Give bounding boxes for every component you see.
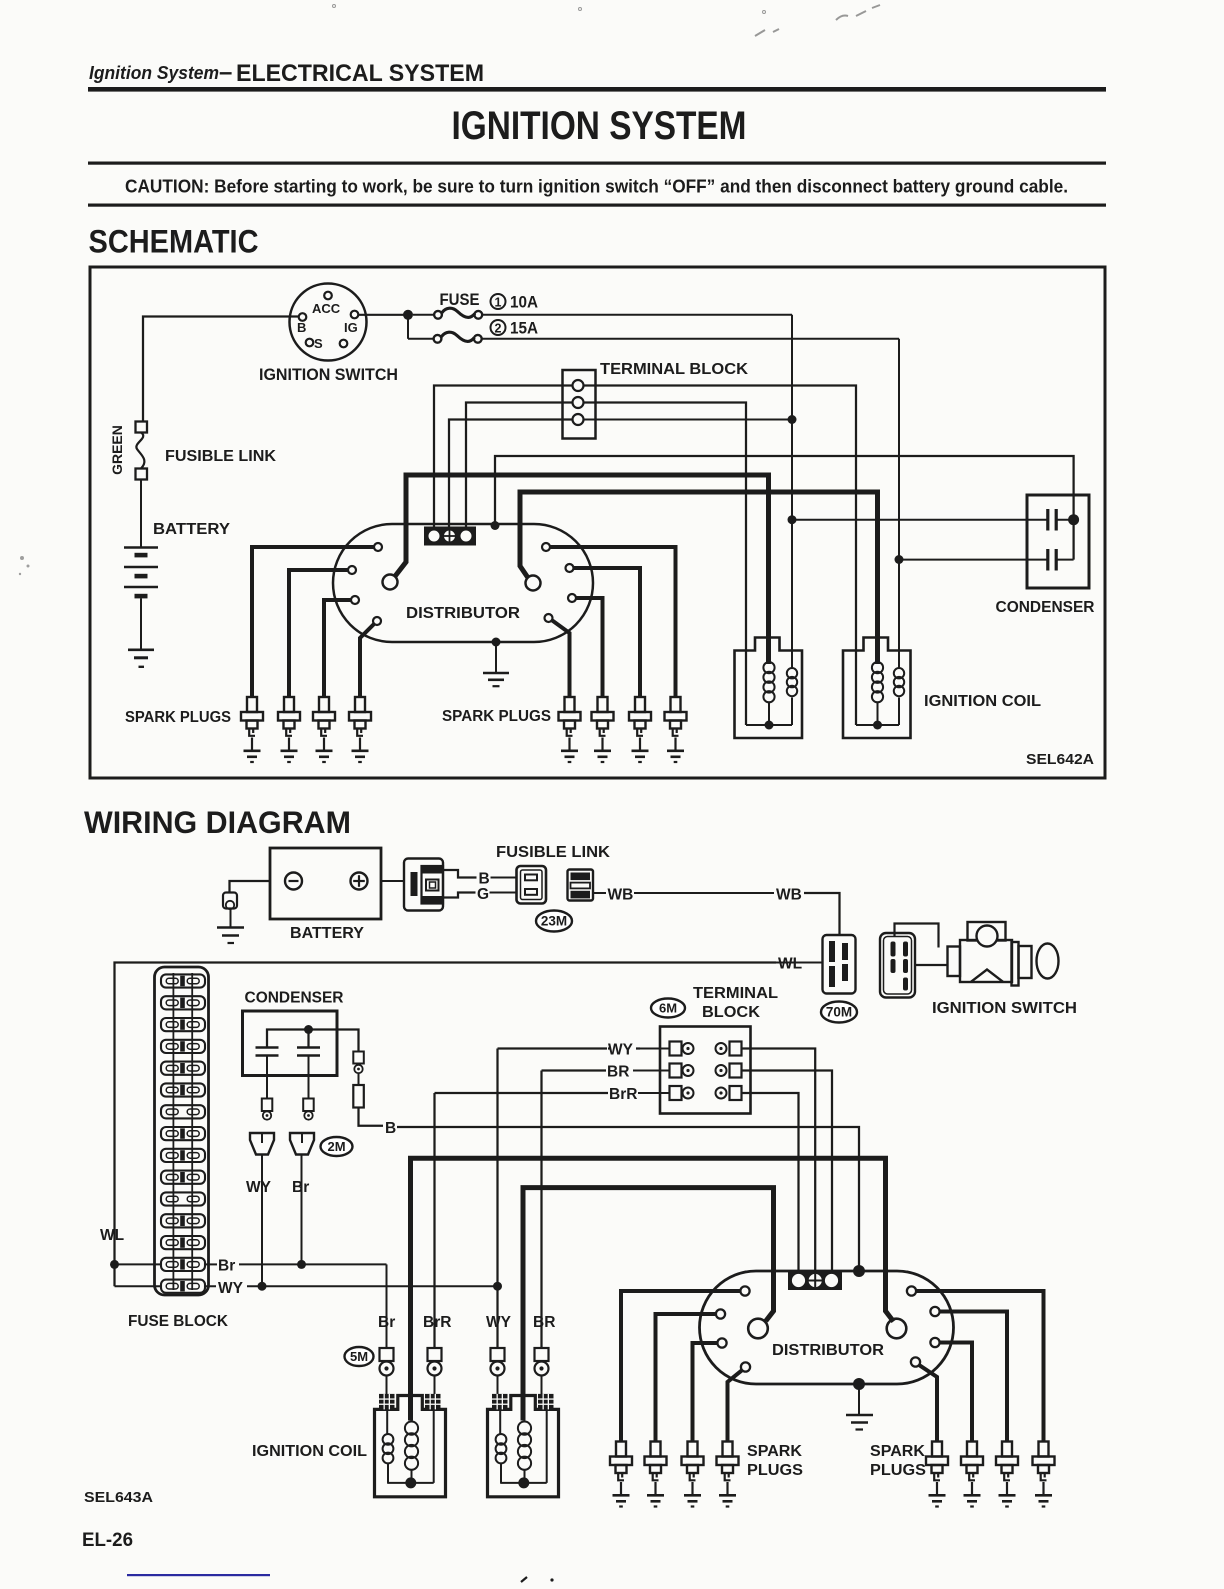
- ignition switch connector (wiring): [880, 933, 915, 998]
- distributor pin 1: [374, 543, 382, 551]
- distributor pin 6: [566, 564, 574, 572]
- node Br junction: [297, 1260, 306, 1269]
- HT bus coil1 tower to rotor right (wiring): [411, 1158, 894, 1420]
- wire pin2 to spark plug 2 (wiring): [656, 1314, 717, 1442]
- wire pin2 to spark plug 2: [289, 570, 348, 697]
- battery (wiring): [270, 848, 381, 919]
- fuse F1 10A: [413, 314, 434, 316]
- wire connector to switch body top: [895, 924, 939, 948]
- junction node at fuses: [403, 310, 413, 320]
- svg-text:IGNITION SWITCH: IGNITION SWITCH: [259, 366, 398, 384]
- svg-text:WB: WB: [776, 887, 802, 904]
- connector code 5M: [345, 1347, 374, 1366]
- wire TB1 row3 right to node A: [584, 419, 793, 421]
- scan speck 2: [550, 1578, 553, 1581]
- spark plug 2 (wiring): [645, 1442, 667, 1507]
- label circled-1 10A: [491, 294, 506, 309]
- HT bus to rotor left: [395, 475, 769, 664]
- distributor pin 3: [351, 596, 359, 604]
- node distributor top (wiring): [853, 1265, 865, 1277]
- svg-text:GREEN: GREEN: [109, 425, 125, 475]
- svg-text:BR: BR: [607, 1064, 629, 1081]
- wire BR vertical to 5M connector: [540, 1071, 542, 1349]
- ignition coil 1 (wiring): [375, 1396, 446, 1497]
- svg-text:FUSE BLOCK: FUSE BLOCK: [128, 1313, 228, 1330]
- svg-text:BATTERY: BATTERY: [153, 521, 230, 538]
- wire WL from 70M to left edge: [776, 962, 823, 964]
- wire connector to switch body mid: [915, 964, 948, 966]
- svg-text:70M: 70M: [826, 1005, 852, 1020]
- spark plug 6 (schematic): [592, 697, 614, 762]
- SW1 terminal ACC-top: [324, 292, 332, 300]
- node E on distributor top: [491, 521, 500, 530]
- svg-text:G: G: [477, 886, 489, 903]
- wire WL into fuse block row14: [115, 1285, 162, 1287]
- wire BR left of TB2: [633, 1070, 670, 1072]
- ignition coil 2 (wiring): [488, 1396, 559, 1497]
- wire Br spade down to Br junction: [301, 1155, 303, 1265]
- capacitor C2 plates: [1046, 549, 1049, 571]
- spark plug 7 (schematic): [629, 697, 651, 762]
- svg-text:CONDENSER: CONDENSER: [245, 990, 344, 1007]
- svg-text:5M: 5M: [350, 1349, 368, 1364]
- spade connector WY (2M): [250, 1133, 274, 1155]
- svg-text:15A: 15A: [510, 320, 538, 338]
- wire fuse F2 output to x899: [482, 338, 899, 340]
- battery minus terminal: [285, 873, 302, 890]
- wire TB2 row1 right to distributor cap: [742, 1049, 816, 1272]
- inline connector 2 on case lead: [358, 1073, 360, 1085]
- wire G out of 23M: [443, 893, 476, 898]
- svg-text:B: B: [385, 1120, 396, 1137]
- svg-text:PLUGS: PLUGS: [747, 1462, 803, 1479]
- distributor pin 8: [545, 614, 553, 622]
- HT bus coil2 tower to rotor left (wiring): [523, 1188, 774, 1421]
- fusible link FL1 (schematic): [136, 422, 148, 433]
- wire TB1 row2 right to coil1 side: [584, 403, 747, 652]
- svg-text:WL: WL: [778, 956, 802, 973]
- wire WB segment 3 down to 70M: [804, 893, 840, 935]
- svg-text:BR: BR: [533, 1314, 555, 1331]
- spark plug 3 (wiring): [682, 1442, 704, 1507]
- distributor body (wiring): [700, 1271, 954, 1384]
- capacitor C4 (wiring): [297, 1046, 320, 1049]
- wire pin3 to spark plug 3 (wiring): [693, 1343, 719, 1442]
- svg-text:6M: 6M: [659, 1001, 677, 1016]
- wire pin8 to spark plug 8 (wiring): [919, 1365, 937, 1442]
- wire pin6 to spark plug 6 (wiring): [939, 1312, 1007, 1442]
- svg-text:WY: WY: [608, 1042, 634, 1059]
- spade connector Br (2M): [290, 1133, 314, 1155]
- svg-text:S: S: [314, 336, 323, 351]
- spark plug 3 (schematic): [313, 697, 335, 762]
- wire G to fusible link: [490, 892, 518, 894]
- wire WY left of TB2: [636, 1048, 670, 1050]
- header rule: [88, 87, 1106, 92]
- footer blue rule: [127, 1574, 270, 1576]
- svg-text:1: 1: [495, 295, 502, 309]
- SW1 terminal lower-right: [340, 340, 348, 348]
- connector code 70M: [821, 1002, 857, 1023]
- ground lug terminal: [223, 893, 237, 909]
- scan speck 1: [521, 1577, 527, 1582]
- wire WB segment 2: [634, 892, 774, 894]
- inline connector on C4 lead: [303, 1099, 314, 1112]
- wire case lead down to B run: [359, 1108, 384, 1126]
- condenser box (wiring): [243, 1011, 338, 1076]
- distributor pin 2: [348, 566, 356, 574]
- svg-text:DISTRIBUTOR: DISTRIBUTOR: [406, 605, 520, 622]
- spark plug 2 (schematic): [278, 697, 300, 762]
- spark plug 5 (schematic): [559, 697, 581, 762]
- inline connector on C3 lead: [262, 1099, 273, 1112]
- svg-text:WY: WY: [246, 1179, 272, 1196]
- bullet connector WY (5M): [491, 1348, 505, 1376]
- bullet connector BrR (5M): [428, 1348, 442, 1376]
- SW1 terminal IG: [351, 311, 359, 319]
- spark plug 7 (wiring): [996, 1442, 1018, 1507]
- svg-text:Br: Br: [218, 1258, 235, 1275]
- wire B run to distributor node: [397, 1127, 859, 1267]
- wire WL long run left and down: [115, 963, 777, 1287]
- wire node C to condenser bottom capacitor: [899, 559, 1048, 561]
- wire WL into fuse block row13: [115, 1263, 162, 1265]
- svg-text:–: –: [219, 59, 232, 86]
- wire WB segment 1: [593, 892, 606, 894]
- wire TB1 row2 left to cap: [466, 403, 573, 529]
- wire TB2 row2 right to distributor cap: [742, 1071, 833, 1272]
- node condenser junction: [304, 1025, 313, 1034]
- svg-text:Br: Br: [292, 1179, 309, 1196]
- wire battery minus to ground lug: [230, 881, 271, 892]
- svg-text:WY: WY: [486, 1314, 512, 1331]
- node D on C1: [1068, 514, 1079, 525]
- wire BrR connector to coil1 terminal: [434, 1376, 436, 1397]
- svg-text:Ignition System: Ignition System: [89, 63, 219, 83]
- distributor cap connector (wiring): [788, 1271, 842, 1290]
- svg-text:SEL642A: SEL642A: [1026, 751, 1094, 768]
- SW1 terminal B: [299, 313, 307, 321]
- wire pin1 to spark plug 1 (wiring): [621, 1291, 741, 1442]
- svg-text:WB: WB: [608, 887, 634, 904]
- scan marks top right: [333, 5, 881, 37]
- svg-text:SPARK PLUGS: SPARK PLUGS: [442, 708, 551, 725]
- wire pin1 to spark plug 1: [252, 547, 374, 697]
- svg-text:2: 2: [495, 321, 502, 335]
- bullet connector BR (5M): [535, 1348, 549, 1376]
- svg-text:EL-26: EL-26: [82, 1530, 133, 1551]
- svg-text:IGNITION COIL: IGNITION COIL: [924, 693, 1041, 710]
- svg-text:10A: 10A: [510, 294, 538, 312]
- wire pin5 to spark plug 5 (wiring): [916, 1291, 1044, 1442]
- wire fuse F1 output to x792: [482, 314, 792, 316]
- svg-text:FUSIBLE LINK: FUSIBLE LINK: [165, 448, 276, 465]
- wire pin4 to spark plug 4 (wiring): [728, 1370, 743, 1442]
- svg-text:SPARK PLUGS: SPARK PLUGS: [125, 709, 231, 726]
- distributor pins (wiring) 1-8: [740, 1286, 749, 1295]
- svg-text:IG: IG: [344, 320, 358, 335]
- ground below battery lug: [217, 926, 244, 929]
- wire battery plus to connector 23M: [381, 880, 404, 882]
- svg-text:B: B: [479, 871, 490, 888]
- wire Br to corner: [239, 1263, 387, 1265]
- ground below distributor: [495, 642, 497, 672]
- wire TB1 row1 left to cap: [434, 386, 573, 529]
- rotor contact right: [526, 576, 541, 591]
- wire Br down to 5M connector: [386, 1264, 388, 1348]
- svg-text:FUSE: FUSE: [440, 291, 480, 309]
- node WL junction: [110, 1260, 119, 1269]
- distributor pin 5: [542, 543, 550, 551]
- wire pin8 to spark plug 8: [552, 621, 569, 698]
- spark plug 4 (schematic): [349, 697, 371, 762]
- svg-text:Br: Br: [378, 1314, 395, 1331]
- distributor pin 4: [373, 617, 381, 625]
- node B junction: [788, 515, 797, 524]
- connector 23M assembly: [404, 859, 443, 911]
- inline connector on condenser case lead: [353, 1052, 364, 1064]
- svg-text:CONDENSER: CONDENSER: [996, 599, 1095, 616]
- svg-text:WY: WY: [218, 1280, 244, 1297]
- capacitor C3 (wiring): [256, 1046, 279, 1049]
- wire WY bus from fuse block: [205, 1285, 498, 1287]
- distributor body (schematic): [333, 524, 593, 642]
- wire Br connector to coil1 terminal: [386, 1376, 388, 1397]
- fuse F2 15A: [408, 338, 434, 340]
- svg-text:B: B: [297, 320, 306, 335]
- svg-text:ELECTRICAL SYSTEM: ELECTRICAL SYSTEM: [236, 60, 484, 87]
- SW1 terminal S: [306, 339, 314, 347]
- wire WY spade down to WY bus: [261, 1155, 263, 1287]
- ignition switch body (wiring): [948, 947, 961, 977]
- svg-text:BrR: BrR: [609, 1086, 637, 1103]
- rotor contact right (wiring): [887, 1319, 907, 1339]
- node WY junction 2: [493, 1282, 502, 1291]
- caution rule top: [88, 162, 1106, 165]
- svg-text:2M: 2M: [327, 1139, 345, 1154]
- distributor ground node: [492, 638, 501, 647]
- battery BAT1 (schematic): [124, 546, 158, 549]
- fusible link connector 2 (wiring): [568, 870, 594, 901]
- distributor cap connector block: [424, 527, 476, 546]
- rotor contact left: [383, 575, 398, 590]
- wire TB1 row1 right to coil2 side: [584, 386, 857, 652]
- wire pin7 to spark plug 7 (wiring): [939, 1343, 972, 1442]
- wire node B to condenser top capacitor: [792, 519, 1048, 521]
- capacitor C1 plates: [1046, 509, 1049, 531]
- schematic border box: [90, 267, 1105, 778]
- wire FL1 to battery: [140, 480, 142, 547]
- label circled-2 15A: [491, 320, 506, 335]
- rotor contact left (wiring): [748, 1319, 768, 1339]
- node WY junction 1: [258, 1282, 267, 1291]
- wire pin7 to spark plug 7: [576, 598, 603, 697]
- ignition switch SW1 body: [290, 284, 367, 361]
- condenser interior bus: [267, 1030, 359, 1052]
- svg-text:TERMINAL: TERMINAL: [693, 985, 778, 1002]
- scan specks left margin: [19, 556, 30, 575]
- wire TB1 row3 left to cap: [449, 420, 573, 529]
- svg-text:DISTRIBUTOR: DISTRIBUTOR: [772, 1342, 884, 1359]
- wire node D up and over to distributor node E: [495, 456, 1074, 560]
- wire fuse F1 feed down to coil1 secondary: [791, 315, 793, 669]
- svg-text:TERMINAL BLOCK: TERMINAL BLOCK: [600, 361, 748, 378]
- wire fuse F2 feed down to coil2 secondary: [898, 339, 900, 669]
- wire pin5 to spark plug 5: [550, 547, 676, 697]
- wire BR connector to coil2 terminal: [541, 1376, 543, 1397]
- wire pin6 to spark plug 6: [574, 568, 641, 697]
- wire pin3 to spark plug 3: [324, 600, 351, 697]
- connector code 23M: [536, 911, 572, 932]
- wire B to fusible link: [491, 877, 518, 879]
- distributor ground (wiring): [853, 1378, 865, 1390]
- svg-text:WIRING DIAGRAM: WIRING DIAGRAM: [84, 804, 351, 840]
- wire SW1-IG to fuse junction: [358, 314, 404, 316]
- condenser box: [1027, 495, 1089, 588]
- wire pin4 to spark plug 4: [360, 624, 374, 697]
- caution rule bottom: [88, 204, 1106, 207]
- svg-text:ACC: ACC: [312, 301, 341, 316]
- wire battery to ground: [140, 598, 142, 649]
- wire Br from fuse block: [205, 1263, 217, 1265]
- terminal block TB2 (wiring): [660, 1027, 751, 1114]
- svg-text:FUSIBLE LINK: FUSIBLE LINK: [496, 844, 610, 861]
- svg-text:BrR: BrR: [423, 1314, 451, 1331]
- fusible link connector 1 (wiring): [517, 866, 547, 904]
- wire B out of 23M: [443, 870, 477, 878]
- spark plug 8 (wiring): [1033, 1442, 1055, 1507]
- spark plug 4 (wiring): [717, 1442, 739, 1507]
- node C junction: [895, 555, 904, 564]
- svg-text:BLOCK: BLOCK: [702, 1004, 760, 1021]
- svg-text:PLUGS: PLUGS: [870, 1462, 926, 1479]
- svg-text:SPARK: SPARK: [870, 1443, 925, 1460]
- ground below battery: [128, 648, 154, 651]
- svg-text:CAUTION: Before starting to w: CAUTION: Before starting to work, be sur…: [125, 177, 1068, 197]
- label WY 1: [216, 1277, 247, 1294]
- wire WY from TB2 down to 5M: [608, 1047, 610, 1049]
- spark plug 1 (wiring): [610, 1442, 632, 1507]
- wire junction down to fuse F2: [407, 315, 409, 339]
- wire BrR left of TB2: [638, 1092, 670, 1094]
- svg-text:SCHEMATIC: SCHEMATIC: [89, 224, 259, 260]
- connector code 2M: [321, 1137, 353, 1156]
- wire WY vertical to 5M connector: [496, 1049, 498, 1349]
- spark plug 5 (wiring): [926, 1442, 948, 1507]
- svg-text:BATTERY: BATTERY: [290, 925, 364, 942]
- bullet connector Br (5M): [380, 1348, 394, 1376]
- svg-text:IGNITION SYSTEM: IGNITION SYSTEM: [452, 104, 747, 148]
- distributor pin 7: [568, 594, 576, 602]
- svg-text:23M: 23M: [541, 914, 567, 929]
- svg-text:IGNITION SWITCH: IGNITION SWITCH: [932, 1000, 1077, 1017]
- svg-text:WL: WL: [100, 1227, 124, 1244]
- spark plug 8 (schematic): [665, 697, 687, 762]
- fuse block (wiring): [155, 967, 209, 1295]
- HT bus to rotor right: [520, 492, 878, 664]
- connector 70M: [823, 935, 856, 994]
- wire SW1-B to battery drop: [143, 317, 299, 422]
- svg-text:IGNITION COIL: IGNITION COIL: [252, 1443, 367, 1460]
- terminal block TB1: [563, 370, 596, 439]
- wire WY connector to coil2 terminal: [497, 1376, 499, 1397]
- ignition coil 1 (schematic): [735, 638, 803, 739]
- ignition coil 2 (schematic): [843, 638, 911, 739]
- wire BrR vertical to 5M connector: [433, 1093, 435, 1348]
- connector code 6M: [651, 999, 685, 1018]
- svg-text:SEL643A: SEL643A: [84, 1489, 153, 1506]
- spark plug 6 (wiring): [961, 1442, 983, 1507]
- svg-text:SPARK: SPARK: [747, 1443, 802, 1460]
- wire TB2 row3 right to distributor cap: [742, 1093, 799, 1271]
- spark plug 1 (schematic): [241, 697, 263, 762]
- node A junction: [788, 415, 797, 424]
- battery plus terminal: [351, 873, 368, 890]
